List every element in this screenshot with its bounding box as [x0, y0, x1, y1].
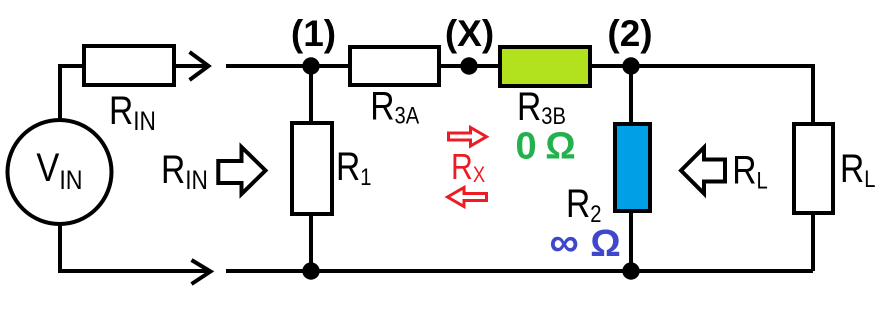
wire: bottom left segment to node 1 bottom	[226, 269, 311, 273]
resistor RL (right)	[794, 124, 833, 213]
resistor R3B (highlighted green)	[500, 47, 590, 86]
label VIN	[36, 145, 82, 196]
node (1) junction dot	[302, 57, 319, 74]
block arrow: red left (RX looking left)	[448, 188, 487, 207]
resistor RIN	[84, 46, 174, 85]
label R1	[336, 144, 371, 190]
wire: RL bottom lead	[811, 215, 815, 271]
current direction chevron (bottom)	[192, 260, 211, 284]
wire: to node 1	[226, 64, 311, 68]
label RIN	[109, 88, 156, 136]
wire: VIN bottom lead with return path	[60, 224, 207, 271]
label R3A	[370, 84, 419, 129]
wire: bottom right segment	[631, 269, 813, 273]
wire: R2 bottom lead	[629, 213, 633, 271]
wire: node 1 to R3A	[311, 64, 348, 68]
wire: node 2 to RL branch (top right corner)	[631, 66, 813, 122]
svg-text:(1): (1)	[291, 13, 336, 54]
wire: R3A to node X	[441, 64, 469, 68]
resistor R3A	[350, 47, 439, 85]
label R3B	[517, 84, 566, 129]
block arrow: RIN looking right	[218, 147, 265, 194]
resistor R2 (highlighted cyan)	[615, 124, 650, 211]
svg-text:∞ Ω: ∞ Ω	[550, 219, 621, 265]
svg-text:(2): (2)	[607, 13, 652, 54]
node (2) junction dot	[622, 57, 639, 74]
wire: bottom middle segment	[311, 269, 631, 273]
label RIN (input resistance annotation)	[161, 147, 208, 195]
label RX	[451, 148, 486, 188]
node junction dot (bottom, under node 1)	[302, 262, 319, 279]
svg-text:0 Ω: 0 Ω	[516, 126, 576, 168]
wire: node 2 to R2	[629, 66, 633, 122]
node (X) junction dot	[460, 57, 477, 74]
resistor R1	[292, 123, 332, 214]
label RL (right)	[840, 146, 875, 192]
svg-text:(X): (X)	[445, 13, 494, 54]
wire: VIN top lead to RIN	[60, 66, 82, 120]
label RL (load resistance annotation)	[732, 148, 767, 194]
wire: node X to R3B	[469, 64, 498, 68]
wire: node 1 to R1	[309, 66, 313, 121]
wire: RIN output with current arrow	[176, 64, 207, 68]
wire: R1 bottom lead	[309, 216, 313, 271]
label R2	[566, 181, 601, 227]
wire: R3B to node 2	[592, 64, 631, 68]
current direction chevron (top)	[190, 52, 209, 80]
block arrow: RL looking left	[681, 148, 725, 194]
node junction dot (bottom, under node 2)	[622, 262, 639, 279]
block arrow: red right (RX looking right)	[449, 128, 487, 147]
voltage source VIN	[8, 120, 112, 224]
